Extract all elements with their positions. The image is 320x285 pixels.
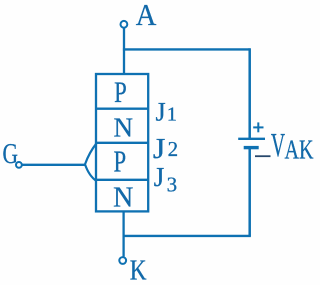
svg-text:V: V: [271, 127, 285, 164]
minus sign: [255, 155, 271, 157]
junction J2 line: [96, 142, 148, 144]
plus sign: [253, 122, 263, 132]
svg-text:J: J: [155, 98, 165, 127]
node G terminal circle: [16, 162, 22, 168]
node K terminal circle: [119, 257, 126, 264]
svg-text:AK: AK: [285, 135, 314, 165]
wire right vertical lower: [248, 148, 251, 236]
svg-text:J: J: [153, 133, 166, 165]
junction J1 line: [96, 108, 148, 110]
node A terminal circle: [121, 21, 128, 28]
svg-text:N: N: [113, 183, 133, 214]
wire right vertical upper: [248, 48, 251, 139]
svg-text:G: G: [3, 139, 19, 170]
svg-text:J: J: [154, 162, 165, 192]
svg-text:P: P: [114, 76, 127, 109]
svg-text:1: 1: [167, 104, 177, 126]
svg-text:K: K: [130, 254, 147, 285]
svg-text:N: N: [114, 113, 134, 143]
battery negative plate: [244, 146, 259, 149]
wire top branch horizontal: [123, 48, 250, 50]
svg-text:2: 2: [168, 137, 179, 161]
wire cathode vertical: [122, 211, 124, 256]
gate flare to P layer: [85, 143, 97, 182]
svg-text:3: 3: [167, 173, 178, 197]
svg-text:P: P: [114, 144, 127, 179]
battery V_AK positive plate: [238, 138, 265, 140]
junction J3 line: [96, 179, 148, 181]
PNPN stack outline: [96, 74, 148, 211]
wire anode vertical: [123, 28, 125, 74]
wire gate horizontal: [22, 164, 87, 166]
wire bottom horizontal: [123, 235, 251, 237]
svg-text:A: A: [136, 0, 157, 32]
